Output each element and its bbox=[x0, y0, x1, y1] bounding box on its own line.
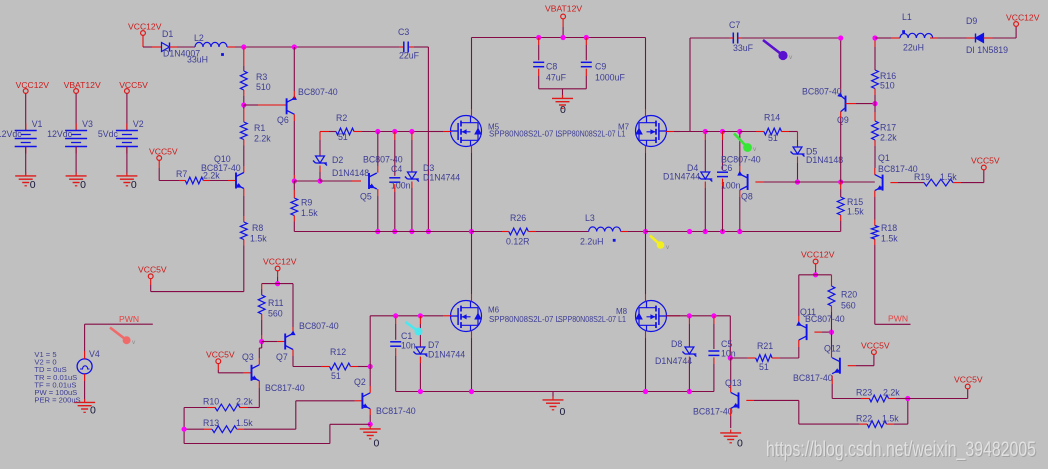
svg-text:Q3: Q3 bbox=[242, 352, 254, 362]
svg-text:SPP80N08S2L-07 L1: SPP80N08S2L-07 L1 bbox=[558, 130, 626, 139]
svg-text:100n: 100n bbox=[391, 181, 411, 191]
svg-text:VCC5V: VCC5V bbox=[861, 341, 890, 351]
svg-text:VCC5V: VCC5V bbox=[149, 147, 178, 157]
svg-text:22uF: 22uF bbox=[399, 51, 420, 61]
svg-text:R14: R14 bbox=[764, 113, 780, 123]
svg-text:SPP80N08S2L-07 L: SPP80N08S2L-07 L bbox=[489, 130, 561, 139]
svg-text:510: 510 bbox=[256, 82, 271, 92]
svg-text:D1N4744: D1N4744 bbox=[428, 350, 465, 360]
svg-text:Q2: Q2 bbox=[354, 377, 366, 387]
svg-text:VCC5V: VCC5V bbox=[206, 350, 235, 360]
svg-text:BC817-40: BC817-40 bbox=[201, 163, 241, 173]
svg-text:C8: C8 bbox=[546, 62, 557, 72]
svg-text:2.2k: 2.2k bbox=[236, 397, 253, 407]
svg-text:51: 51 bbox=[759, 362, 769, 372]
svg-text:R13: R13 bbox=[203, 418, 219, 428]
svg-text:D7: D7 bbox=[428, 340, 439, 350]
svg-text:BC817-40: BC817-40 bbox=[265, 383, 305, 393]
svg-text:VCC5V: VCC5V bbox=[138, 265, 167, 275]
svg-text:VCC12V: VCC12V bbox=[263, 257, 297, 267]
svg-text:R19: R19 bbox=[914, 172, 930, 182]
svg-text:D3: D3 bbox=[423, 163, 434, 173]
svg-text:560: 560 bbox=[268, 309, 283, 319]
svg-text:R22: R22 bbox=[856, 414, 872, 424]
svg-text:D1N4744: D1N4744 bbox=[655, 356, 692, 366]
svg-text:M6: M6 bbox=[488, 306, 500, 315]
svg-text:R3: R3 bbox=[256, 72, 267, 82]
svg-text:V3: V3 bbox=[82, 119, 93, 129]
svg-text:V1: V1 bbox=[32, 119, 43, 129]
svg-text:1000uF: 1000uF bbox=[595, 73, 625, 83]
svg-text:1.5k: 1.5k bbox=[881, 234, 898, 244]
svg-text:PWN: PWN bbox=[119, 314, 139, 324]
svg-text:VCC5V: VCC5V bbox=[971, 156, 1000, 166]
svg-text:D8: D8 bbox=[671, 339, 682, 349]
svg-text:2.2k: 2.2k bbox=[254, 134, 271, 144]
svg-text:BC807-40: BC807-40 bbox=[298, 87, 338, 97]
svg-text:1.5k: 1.5k bbox=[847, 207, 864, 217]
svg-text:0.12R: 0.12R bbox=[506, 237, 529, 247]
svg-text:BC817-40: BC817-40 bbox=[376, 406, 416, 416]
svg-text:1.5k: 1.5k bbox=[236, 418, 253, 428]
svg-text:R16: R16 bbox=[880, 71, 896, 81]
svg-text:VCC12V: VCC12V bbox=[16, 80, 50, 90]
svg-text:0: 0 bbox=[374, 438, 380, 450]
svg-text:L2: L2 bbox=[194, 33, 204, 43]
svg-text:Q13: Q13 bbox=[725, 378, 742, 388]
svg-text:100n: 100n bbox=[721, 181, 741, 191]
svg-text:Q7: Q7 bbox=[276, 352, 288, 362]
svg-text:5Vdc: 5Vdc bbox=[98, 129, 119, 139]
svg-text:47uF: 47uF bbox=[546, 73, 567, 83]
svg-text:C3: C3 bbox=[398, 27, 409, 37]
svg-text:SPP80N08S2L-07 L: SPP80N08S2L-07 L bbox=[489, 315, 561, 324]
svg-text:22uH: 22uH bbox=[903, 43, 924, 53]
svg-text:BC807-40: BC807-40 bbox=[805, 314, 845, 324]
svg-text:R17: R17 bbox=[880, 123, 896, 133]
svg-text:51: 51 bbox=[338, 132, 348, 142]
svg-text:VCC12V: VCC12V bbox=[1006, 13, 1040, 23]
svg-text:BC817-40: BC817-40 bbox=[793, 373, 833, 383]
svg-text:BC807-40: BC807-40 bbox=[721, 155, 761, 165]
svg-text:0: 0 bbox=[131, 179, 137, 191]
svg-text:PWN: PWN bbox=[888, 314, 908, 324]
svg-text:D1N4744: D1N4744 bbox=[663, 172, 700, 182]
svg-text:0: 0 bbox=[80, 179, 86, 191]
svg-text:SPP80N08S2L-07 L1: SPP80N08S2L-07 L1 bbox=[558, 315, 626, 324]
svg-text:Q5: Q5 bbox=[360, 192, 372, 202]
svg-text:10n: 10n bbox=[401, 341, 416, 351]
svg-text:Q1: Q1 bbox=[878, 153, 890, 163]
svg-text:0: 0 bbox=[560, 406, 566, 418]
svg-text:2.2k: 2.2k bbox=[880, 133, 897, 143]
svg-text:0: 0 bbox=[737, 438, 743, 450]
svg-text:BC817-40: BC817-40 bbox=[878, 164, 918, 174]
svg-text:L1: L1 bbox=[902, 12, 912, 22]
svg-text:C1: C1 bbox=[401, 331, 412, 341]
svg-text:D1N4148: D1N4148 bbox=[806, 155, 843, 165]
svg-text:VCC12V: VCC12V bbox=[801, 250, 835, 260]
svg-text:R2: R2 bbox=[336, 113, 347, 123]
svg-text:1.5k: 1.5k bbox=[250, 234, 267, 244]
svg-text:V2: V2 bbox=[133, 119, 144, 129]
svg-text:VBAT12V: VBAT12V bbox=[64, 80, 101, 90]
svg-text:51: 51 bbox=[331, 371, 341, 381]
svg-text:560: 560 bbox=[841, 301, 856, 311]
svg-text:Q8: Q8 bbox=[741, 192, 753, 202]
svg-text:VCC12V: VCC12V bbox=[128, 22, 162, 32]
svg-text:Q12: Q12 bbox=[824, 344, 841, 354]
svg-text:R21: R21 bbox=[757, 341, 773, 351]
svg-text:VCC5V: VCC5V bbox=[119, 80, 148, 90]
svg-text:33uF: 33uF bbox=[733, 43, 754, 53]
svg-text:R15: R15 bbox=[847, 197, 863, 207]
svg-text:510: 510 bbox=[880, 81, 895, 91]
svg-text:R20: R20 bbox=[841, 290, 857, 300]
svg-text:PER = 200uS: PER = 200uS bbox=[34, 396, 80, 405]
svg-text:R12: R12 bbox=[330, 347, 346, 357]
svg-text:C9: C9 bbox=[595, 62, 606, 72]
svg-text:R18: R18 bbox=[881, 223, 897, 233]
svg-text:0: 0 bbox=[90, 405, 96, 417]
svg-text:D1: D1 bbox=[162, 29, 173, 39]
svg-text:2.2uH: 2.2uH bbox=[580, 237, 603, 247]
svg-text:BC807-40: BC807-40 bbox=[802, 87, 842, 97]
svg-text:R23: R23 bbox=[856, 388, 872, 398]
svg-text:0: 0 bbox=[30, 179, 36, 191]
svg-text:BC817-40: BC817-40 bbox=[693, 407, 733, 417]
svg-text:R11: R11 bbox=[268, 298, 284, 308]
svg-text:12Vdc: 12Vdc bbox=[47, 129, 73, 139]
svg-text:L3: L3 bbox=[585, 213, 595, 223]
svg-text:C5: C5 bbox=[721, 339, 732, 349]
svg-text:BC807-40: BC807-40 bbox=[299, 321, 339, 331]
svg-text:R26: R26 bbox=[510, 213, 526, 223]
svg-text:D2: D2 bbox=[332, 155, 343, 165]
svg-text:R1: R1 bbox=[254, 123, 265, 133]
svg-text:51: 51 bbox=[768, 133, 778, 143]
svg-text:C6: C6 bbox=[721, 163, 732, 173]
svg-text:Q9: Q9 bbox=[837, 115, 849, 125]
svg-text:R7: R7 bbox=[176, 169, 187, 179]
svg-text:D1N4744: D1N4744 bbox=[423, 173, 460, 183]
svg-text:VCC5V: VCC5V bbox=[954, 375, 983, 385]
svg-text:DI 1N5819: DI 1N5819 bbox=[966, 45, 1008, 55]
svg-text:Q6: Q6 bbox=[277, 115, 289, 125]
svg-text:C7: C7 bbox=[729, 20, 740, 30]
svg-text:1.5k: 1.5k bbox=[301, 208, 318, 218]
svg-text:D1N4148: D1N4148 bbox=[332, 168, 369, 178]
svg-text:C4: C4 bbox=[391, 164, 402, 174]
svg-text:12Vdc: 12Vdc bbox=[0, 129, 22, 139]
svg-text:BC807-40: BC807-40 bbox=[363, 155, 403, 165]
svg-text:D9: D9 bbox=[966, 16, 977, 26]
svg-text:0: 0 bbox=[560, 104, 566, 116]
svg-text:10n: 10n bbox=[721, 349, 736, 359]
svg-text:33uH: 33uH bbox=[187, 55, 208, 65]
svg-text:1.5k: 1.5k bbox=[940, 172, 957, 182]
svg-text:https://blog.csdn.net/weixin_3: https://blog.csdn.net/weixin_39482005 bbox=[766, 437, 1036, 461]
svg-text:V4: V4 bbox=[89, 349, 100, 359]
svg-text:1.5k: 1.5k bbox=[882, 414, 899, 424]
svg-text:R9: R9 bbox=[301, 198, 312, 208]
svg-text:R10: R10 bbox=[203, 397, 219, 407]
svg-text:2.2k: 2.2k bbox=[883, 388, 900, 398]
svg-text:R8: R8 bbox=[252, 223, 263, 233]
svg-text:VBAT12V: VBAT12V bbox=[545, 4, 582, 14]
